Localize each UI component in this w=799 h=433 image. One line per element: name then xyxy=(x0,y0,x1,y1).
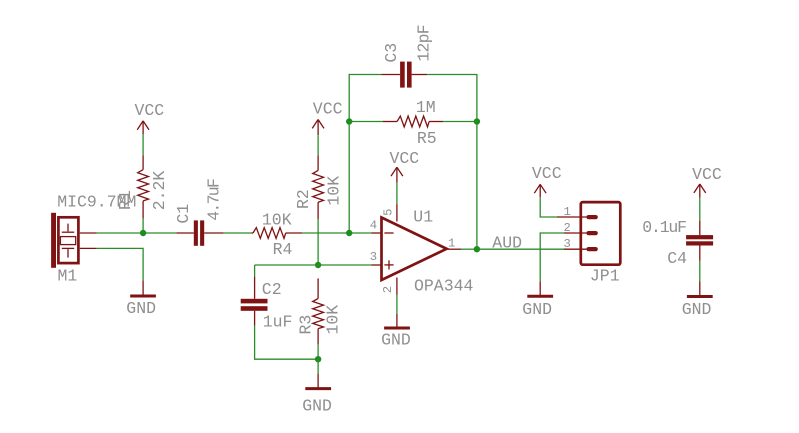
connector JP1 xyxy=(581,202,621,265)
op-amp U1 pin 2 xyxy=(396,278,398,295)
svg-text:GND: GND xyxy=(302,397,332,416)
svg-text:R2: R2 xyxy=(294,189,313,209)
svg-text:OPA344: OPA344 xyxy=(414,277,474,296)
svg-text:VCC: VCC xyxy=(692,165,722,184)
ground C4 xyxy=(687,282,713,297)
wire feedback left column xyxy=(349,75,381,234)
op-amp U1 xyxy=(382,218,447,281)
junction minus node xyxy=(346,230,352,236)
svg-text:GND: GND xyxy=(682,300,712,319)
ground JP1 xyxy=(527,281,553,296)
resistor R2 xyxy=(313,155,324,219)
svg-text:R4: R4 xyxy=(273,240,293,259)
svg-text:10K: 10K xyxy=(324,305,343,335)
junction mic/R1/C1 xyxy=(140,230,146,236)
wire R5 left xyxy=(349,121,383,123)
connector JP1 pin 2 xyxy=(564,232,587,234)
svg-text:3: 3 xyxy=(564,237,571,251)
ground R3 xyxy=(305,359,331,388)
supply VCC C4 xyxy=(694,184,706,198)
wire R3 to bottom node xyxy=(317,345,319,360)
svg-text:GND: GND xyxy=(126,299,156,318)
svg-text:M1: M1 xyxy=(58,267,78,286)
supply VCC JP1 xyxy=(534,184,546,197)
junction feedback left R5 xyxy=(346,118,352,124)
svg-text:3: 3 xyxy=(370,250,377,264)
capacitor C2 xyxy=(241,265,268,326)
wire VCC to pin5 xyxy=(396,183,398,205)
svg-text:2: 2 xyxy=(564,221,571,235)
svg-text:10K: 10K xyxy=(324,176,343,206)
ground op-amp xyxy=(384,314,410,328)
connector JP1 pin 1 xyxy=(557,216,587,218)
svg-text:2.2K: 2.2K xyxy=(150,171,169,211)
junction feedback right R5 xyxy=(474,118,480,124)
wire C2 bottom xyxy=(255,326,319,360)
svg-text:4: 4 xyxy=(370,219,377,233)
svg-text:VCC: VCC xyxy=(313,100,343,119)
svg-text:R1: R1 xyxy=(116,190,135,210)
wire C1 to R4 xyxy=(224,232,252,234)
capacitor C1 xyxy=(176,220,223,245)
wire VCC to JP1 pin1 xyxy=(540,197,557,217)
op-amp U1 pin 1 xyxy=(447,248,461,250)
op-amp U1 pin 3 xyxy=(372,264,382,266)
svg-text:R3: R3 xyxy=(297,315,316,335)
wire pin2 to ground xyxy=(396,295,398,314)
resistor R4 xyxy=(251,228,302,239)
svg-text:10K: 10K xyxy=(262,210,292,229)
wire R1 to junction xyxy=(142,219,144,233)
svg-text:5: 5 xyxy=(382,209,396,216)
svg-text:VCC: VCC xyxy=(532,164,562,183)
supply VCC op-amp xyxy=(391,167,403,182)
supply VCC R2 xyxy=(312,120,324,136)
op-amp U1 pin 5 xyxy=(396,204,398,221)
svg-text:4.7uF: 4.7uF xyxy=(204,179,223,221)
svg-text:0.1uF: 0.1uF xyxy=(642,218,686,237)
svg-text:1: 1 xyxy=(564,205,571,219)
svg-text:2: 2 xyxy=(381,286,395,293)
svg-text:C4: C4 xyxy=(667,249,687,268)
junction plus node xyxy=(315,262,321,268)
svg-text:GND: GND xyxy=(522,300,552,319)
svg-text:VCC: VCC xyxy=(135,101,165,120)
svg-text:C1: C1 xyxy=(174,204,193,224)
junction output node xyxy=(474,246,480,252)
microphone M1 pin 2 xyxy=(80,247,97,249)
svg-text:VCC: VCC xyxy=(390,149,420,168)
resistor R1 xyxy=(138,156,149,219)
wire VCC to R2 xyxy=(317,135,319,155)
wire R2 to plus node xyxy=(317,219,319,265)
wire plus row xyxy=(255,264,372,266)
wire JP1 pin2 to ground xyxy=(540,233,564,281)
svg-text:JP1: JP1 xyxy=(590,267,620,286)
svg-text:GND: GND xyxy=(381,330,411,349)
wire R5 right xyxy=(443,121,477,123)
svg-text:12pF: 12pF xyxy=(414,25,433,61)
svg-text:C2: C2 xyxy=(262,280,282,299)
resistor R5 xyxy=(383,116,443,127)
resistor R3 xyxy=(313,278,324,344)
microphone M1 pin 1 xyxy=(80,232,97,234)
svg-text:C3: C3 xyxy=(382,43,401,63)
wire output to junction xyxy=(461,248,477,250)
svg-text:1uF: 1uF xyxy=(263,313,293,332)
ground mic xyxy=(130,280,156,296)
connector JP1 pin 3 xyxy=(564,248,587,250)
junction bottom node xyxy=(315,356,321,362)
microphone M1 body xyxy=(51,213,78,268)
capacitor C3 xyxy=(381,62,427,88)
svg-text:1: 1 xyxy=(448,237,455,251)
wire mic top to junction xyxy=(97,232,177,234)
wire mic bottom xyxy=(97,248,143,280)
wire R4 to op-amp minus xyxy=(302,232,372,234)
wire VCC to R1 xyxy=(142,134,144,156)
supply VCC R1 xyxy=(137,121,149,134)
svg-text:1M: 1M xyxy=(416,98,436,117)
wire AUD net xyxy=(477,248,564,250)
svg-text:R5: R5 xyxy=(417,129,437,148)
svg-text:U1: U1 xyxy=(413,208,433,227)
wire C4 to ground xyxy=(699,261,701,282)
capacitor C4 xyxy=(686,221,713,261)
wire VCC to C4 xyxy=(699,198,701,221)
op-amp U1 pin 4 xyxy=(372,232,382,234)
wire C3 right xyxy=(427,75,477,250)
svg-text:AUD: AUD xyxy=(492,233,522,252)
